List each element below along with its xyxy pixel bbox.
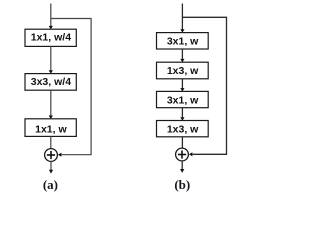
block (a) skip branch wire [51,19,91,155]
arrowhead into b2 [180,59,184,63]
arrowhead into b4 [180,117,184,121]
block (b) skip branch wire [182,17,226,154]
svg-text:1x3, w: 1x3, w [167,124,199,136]
svg-text:3x1, w: 3x1, w [167,95,199,107]
box a2 3x3,w/4 [25,74,76,91]
svg-text:3x3, w/4: 3x3, w/4 [31,76,71,88]
adder node b [176,148,189,161]
box b1 3x1,w [157,33,209,49]
box a1 1x1,w/4 [25,29,76,46]
svg-text:(a): (a) [43,177,58,192]
block (b) input wire [181,4,183,31]
svg-text:(b): (b) [174,177,190,192]
wire b2 to b3 [181,79,183,89]
box a3 1x1,w [25,119,76,137]
box b4 1x3,w [157,121,209,137]
wire b1 to b2 [181,49,183,60]
adder node a [45,149,58,162]
block (b) skip arrowhead into adder [189,152,193,156]
block (b) output arrowhead [180,169,184,173]
wire b4 to adder [181,137,183,148]
block (a) output arrowhead [49,170,53,174]
box b3 3x1,w [157,91,209,107]
block (b) input arrowhead [180,29,184,33]
svg-text:1x1, w: 1x1, w [35,123,67,135]
wire a1 to a2 [50,46,52,71]
block (a) output wire [50,162,52,171]
wire a2 to a3 [50,90,52,116]
svg-text:1x1, w/4: 1x1, w/4 [31,32,71,44]
block (b) output wire [181,161,183,170]
block (a) input arrowhead [49,26,53,30]
arrowhead into a3 [49,116,53,120]
block (a) input wire [50,4,52,27]
box b2 1x3,w [157,62,209,79]
svg-text:1x3, w: 1x3, w [167,65,199,77]
svg-text:3x1, w: 3x1, w [167,36,199,48]
wire b3 to b4 [181,108,183,118]
wire a3 to adder [50,136,52,148]
block (a) skip arrowhead into adder [58,153,62,157]
arrowhead into a2 [49,70,53,74]
arrowhead into b3 [180,88,184,92]
